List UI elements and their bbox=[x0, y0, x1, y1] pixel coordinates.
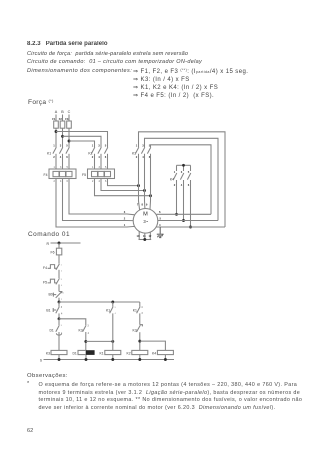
wire K2 pole2 to F5 bbox=[100, 154, 102, 169]
svg-text:6: 6 bbox=[105, 155, 107, 159]
svg-text:F1: F1 bbox=[52, 117, 56, 121]
overload contact F4 bbox=[43, 264, 63, 273]
svg-text:F6: F6 bbox=[51, 251, 55, 255]
svg-text:2: 2 bbox=[136, 155, 138, 159]
junction dot star bus bbox=[143, 238, 146, 241]
svg-text:K1: K1 bbox=[47, 152, 51, 156]
wire F5 pole3 to node 7 bbox=[108, 179, 139, 186]
aux contact K3 bbox=[78, 325, 89, 335]
wire branch B to K2 pole2 bbox=[63, 136, 102, 147]
node R bbox=[46, 242, 49, 246]
wire K2 pole1 to F5 bbox=[94, 154, 96, 169]
wire K1 pole1 to F4 bbox=[55, 154, 57, 169]
wire D1 coil to bus bbox=[85, 355, 87, 360]
wire F4 pole1 to motor terminal 1 bbox=[56, 179, 135, 228]
junction dot K4 line5 bbox=[182, 219, 185, 222]
junction dot bus K3 bbox=[58, 358, 61, 361]
wire K1 seal to K1 coil bbox=[112, 313, 114, 350]
wire motor terminal 5 line bbox=[158, 220, 218, 222]
junction dot after B0 bbox=[58, 301, 61, 304]
fuse F1 bbox=[52, 117, 58, 128]
NC contact K3 bbox=[132, 325, 142, 333]
wire motor terminal 4 line bbox=[157, 226, 226, 228]
svg-text:3~: 3~ bbox=[143, 219, 148, 224]
svg-text:2: 2 bbox=[92, 155, 94, 159]
pushbutton B1 bbox=[46, 302, 63, 315]
junction dot phase A bbox=[55, 130, 58, 133]
svg-text:K1: K1 bbox=[99, 351, 103, 355]
junction dot bus D1 bbox=[85, 358, 88, 361]
overload contact F5 bbox=[43, 278, 63, 287]
svg-text:1: 1 bbox=[174, 170, 176, 174]
timer coil D1 bbox=[72, 350, 94, 355]
svg-text:3: 3 bbox=[114, 307, 116, 309]
svg-text:3: 3 bbox=[87, 325, 89, 328]
timer contact D1 bbox=[49, 319, 63, 335]
junction dot K4 line6 bbox=[175, 213, 178, 216]
svg-text:3: 3 bbox=[98, 166, 100, 169]
wire K3 pole3 loop to motor terminal 6 bbox=[151, 145, 212, 215]
node B bbox=[61, 110, 64, 114]
junction dot K1 seal tap bbox=[111, 301, 114, 304]
heading bbox=[27, 41, 108, 47]
contactor K1 bbox=[47, 144, 69, 159]
wire rail 2 bbox=[59, 301, 140, 303]
svg-text:4: 4 bbox=[61, 312, 63, 315]
node A bbox=[55, 110, 58, 114]
motor terminal label 6 bbox=[159, 210, 161, 214]
fuse F6 bbox=[51, 248, 62, 255]
motor terminal label 7 bbox=[137, 203, 139, 207]
coil K3 bbox=[46, 350, 67, 355]
svg-text:F3: F3 bbox=[65, 117, 69, 121]
svg-text:B1: B1 bbox=[46, 308, 50, 312]
svg-text:5: 5 bbox=[105, 144, 107, 148]
line: dimensionamento bbox=[27, 69, 132, 75]
svg-text:9: 9 bbox=[146, 203, 148, 207]
node C bbox=[68, 110, 71, 114]
wire B0 to node bbox=[58, 298, 60, 302]
svg-text:C: C bbox=[68, 110, 71, 114]
svg-text:6: 6 bbox=[66, 155, 68, 159]
svg-text:6: 6 bbox=[61, 333, 63, 335]
fuse F2 bbox=[59, 117, 65, 128]
svg-text:12: 12 bbox=[148, 234, 151, 238]
heading Comando 01 bbox=[28, 232, 70, 238]
contactor K3 bbox=[132, 144, 151, 159]
junction dot node 9 bbox=[149, 194, 152, 197]
svg-text:F4: F4 bbox=[43, 266, 47, 270]
junction dot K1 coil top bbox=[111, 340, 114, 343]
coil K1 bbox=[99, 350, 120, 355]
svg-text:5: 5 bbox=[188, 170, 190, 174]
svg-text:4: 4 bbox=[60, 180, 62, 183]
junction dot K4 bus bbox=[182, 164, 185, 167]
wire star bus 10-11-12 bbox=[139, 239, 152, 241]
svg-text:4: 4 bbox=[88, 332, 90, 335]
seal contact K1 bbox=[106, 302, 117, 315]
junction dot bus K2 bbox=[138, 358, 141, 361]
svg-text:B: B bbox=[61, 110, 64, 114]
wire branch to K3 aux bbox=[59, 319, 86, 325]
wire F2 to K1 pole2 bbox=[62, 128, 64, 147]
wire motor terminal 10 bbox=[138, 231, 140, 239]
svg-text:1: 1 bbox=[53, 166, 55, 169]
overload relay F4 bbox=[44, 166, 76, 183]
svg-text:F2: F2 bbox=[59, 117, 63, 121]
svg-text:1: 1 bbox=[136, 144, 138, 148]
svg-text:2: 2 bbox=[92, 180, 94, 183]
svg-text:2: 2 bbox=[174, 183, 176, 187]
svg-text:5: 5 bbox=[66, 144, 68, 148]
junction dot R bbox=[58, 242, 61, 245]
wire D1 top to K1 top bbox=[86, 340, 113, 342]
svg-text:M: M bbox=[143, 211, 148, 217]
line: circuito de forca bbox=[27, 52, 188, 58]
svg-text:R: R bbox=[46, 242, 49, 246]
wire K2 top to K4 coil bbox=[140, 341, 166, 350]
svg-text:4: 4 bbox=[141, 306, 143, 309]
svg-text:1: 1 bbox=[53, 144, 55, 148]
svg-text:3: 3 bbox=[61, 306, 63, 309]
pushbutton B0 bbox=[48, 292, 64, 301]
svg-text:F5: F5 bbox=[82, 173, 86, 177]
ground bbox=[157, 227, 164, 238]
svg-text:F4: F4 bbox=[44, 173, 48, 177]
motor terminal label 9 bbox=[146, 203, 148, 207]
observacoes heading bbox=[27, 374, 68, 380]
junction dot node 8 bbox=[143, 189, 146, 192]
observacoes bullet bbox=[27, 382, 29, 387]
wire D1 to K3 coil bbox=[58, 332, 60, 350]
contactor K4 bbox=[170, 165, 191, 187]
svg-text:3: 3 bbox=[61, 279, 63, 281]
wire K4 pole2 to line 5 bbox=[183, 180, 185, 221]
wire S bus bbox=[44, 359, 175, 361]
coil K4 bbox=[152, 350, 173, 355]
svg-text:6: 6 bbox=[188, 183, 190, 187]
page number bbox=[27, 429, 33, 435]
svg-text:D1: D1 bbox=[49, 328, 53, 332]
svg-text:3: 3 bbox=[60, 144, 62, 148]
svg-text:5: 5 bbox=[66, 166, 68, 169]
svg-text:3: 3 bbox=[60, 166, 62, 169]
wire K1 pole3 to F4 bbox=[68, 154, 70, 169]
svg-text:3: 3 bbox=[141, 312, 143, 315]
wire K4 pole3 to line 4 bbox=[190, 180, 192, 227]
wire K1 coil to bus bbox=[112, 355, 114, 360]
motor terminal label 5 bbox=[159, 217, 161, 221]
wire F3 to K1 pole3 bbox=[68, 128, 70, 147]
svg-text:S: S bbox=[40, 358, 42, 362]
wire F4 pole2 to motor terminal 2 bbox=[63, 179, 134, 221]
svg-text:4: 4 bbox=[60, 155, 62, 159]
svg-text:4: 4 bbox=[181, 183, 183, 187]
wire branch A to K2 pole3 bbox=[56, 132, 108, 148]
svg-text:6: 6 bbox=[66, 180, 68, 183]
svg-text:K3: K3 bbox=[132, 328, 136, 332]
node S bbox=[40, 358, 42, 362]
svg-text:K3: K3 bbox=[78, 328, 82, 332]
contactor K2 bbox=[88, 144, 107, 159]
wire K3 pole2 to motor terminal 8 bbox=[144, 154, 146, 209]
wire R rail bbox=[51, 242, 81, 244]
wire motor terminal 11 bbox=[144, 233, 146, 239]
svg-text:K2: K2 bbox=[126, 351, 130, 355]
wire K3 pole1 to motor terminal 7 bbox=[139, 154, 140, 210]
overload relay F5 bbox=[82, 166, 114, 183]
wire K3 pole2 loop to motor terminal 5 bbox=[145, 138, 219, 220]
wire K2 pole3 to F5 bbox=[107, 154, 109, 169]
junction dot phase B bbox=[61, 135, 64, 138]
wire B1 to node bbox=[58, 313, 60, 318]
junction dot phase C bbox=[68, 140, 71, 143]
wire F4 to F5 contact bbox=[58, 270, 60, 278]
wire K4 coil to bus bbox=[164, 355, 166, 360]
wire K1 pole2 to F4 bbox=[62, 154, 64, 169]
wire motor terminal 12 bbox=[149, 232, 151, 240]
wire K3 NC to K2 coil bbox=[139, 332, 141, 350]
svg-text:D1: D1 bbox=[72, 351, 76, 355]
svg-text:6: 6 bbox=[105, 180, 107, 183]
svg-text:K4: K4 bbox=[152, 351, 156, 355]
junction dot K4 line4 bbox=[189, 226, 192, 229]
svg-text:B0: B0 bbox=[48, 292, 52, 296]
svg-text:2: 2 bbox=[61, 271, 63, 273]
svg-text:K3: K3 bbox=[46, 351, 50, 355]
svg-text:5: 5 bbox=[105, 166, 107, 169]
svg-text:K1: K1 bbox=[133, 308, 137, 312]
wire F1 to K1 pole1 bbox=[55, 128, 57, 147]
svg-text:2: 2 bbox=[53, 155, 55, 159]
svg-text:1: 1 bbox=[92, 166, 94, 169]
wire phase B drop bbox=[62, 115, 64, 122]
svg-text:4: 4 bbox=[98, 180, 100, 183]
wire F5 to B0 bbox=[58, 284, 60, 291]
svg-text:3: 3 bbox=[181, 170, 183, 174]
wire F6 to F4 contact bbox=[58, 255, 60, 264]
svg-text:3: 3 bbox=[98, 144, 100, 148]
svg-text:1: 1 bbox=[63, 292, 65, 294]
wire F4 pole3 to motor terminal 3 bbox=[69, 179, 135, 215]
motor terminal label 1 bbox=[124, 223, 126, 227]
motor M1 bbox=[133, 209, 158, 234]
coil K2 bbox=[126, 350, 147, 355]
wire phase A drop bbox=[55, 115, 57, 122]
svg-text:1: 1 bbox=[92, 144, 94, 148]
wire R to F6 bbox=[58, 243, 60, 248]
heading Forca bbox=[28, 99, 54, 107]
junction dot D1 coil top bbox=[84, 340, 87, 343]
svg-text:11: 11 bbox=[143, 234, 146, 238]
wire branch C to K2 pole1 bbox=[69, 141, 95, 147]
motor terminal label 3 bbox=[124, 210, 126, 214]
motor terminal label 2 bbox=[124, 217, 126, 221]
junction dot K2 coil top bbox=[138, 340, 141, 343]
motor terminal label 4 bbox=[159, 223, 161, 227]
svg-text:4: 4 bbox=[115, 313, 117, 315]
svg-text:2: 2 bbox=[61, 299, 63, 301]
svg-text:4: 4 bbox=[98, 155, 100, 159]
svg-text:2: 2 bbox=[53, 180, 55, 183]
svg-text:6: 6 bbox=[159, 210, 161, 214]
wire K3 coil to bus bbox=[58, 355, 60, 360]
junction dot bus K4 bbox=[164, 358, 167, 361]
wire F5 pole2 to node 8 bbox=[101, 179, 145, 191]
svg-text:F5: F5 bbox=[43, 281, 47, 285]
junction dot after B1 bbox=[58, 317, 61, 320]
svg-text:5: 5 bbox=[61, 325, 63, 327]
motor terminal label 8 bbox=[141, 203, 143, 207]
junction dot node 7 bbox=[137, 184, 140, 187]
arrow list bbox=[133, 67, 248, 100]
line: circuito de comando bbox=[27, 60, 202, 66]
wire phase C drop bbox=[68, 115, 70, 122]
svg-text:1: 1 bbox=[61, 264, 63, 266]
wire F5 pole1 to node 9 bbox=[95, 179, 151, 196]
svg-text:4: 4 bbox=[61, 285, 63, 287]
wire K3 pole3 to motor terminal 9 bbox=[149, 154, 152, 210]
wire K3 aux to D1 coil bbox=[85, 332, 87, 350]
motor terminal label 12 bbox=[148, 234, 151, 238]
svg-text:8: 8 bbox=[141, 203, 143, 207]
wire K1 aux to K3 NC bbox=[139, 313, 141, 324]
svg-text:A: A bbox=[55, 110, 58, 114]
wire K2 coil to bus bbox=[139, 355, 141, 360]
svg-text:K1: K1 bbox=[106, 308, 110, 312]
aux contact K1 right bbox=[133, 302, 144, 315]
wire motor terminal 6 line bbox=[157, 213, 212, 215]
junction dot bus K1 bbox=[111, 358, 114, 361]
wire K4 pole1 to line 6 bbox=[176, 180, 178, 214]
motor terminal label 10 bbox=[137, 234, 140, 238]
fuse F3 bbox=[65, 117, 71, 128]
wire K3 pole1 loop to motor terminal 4 bbox=[139, 132, 226, 227]
motor terminal label 11 bbox=[143, 234, 146, 238]
